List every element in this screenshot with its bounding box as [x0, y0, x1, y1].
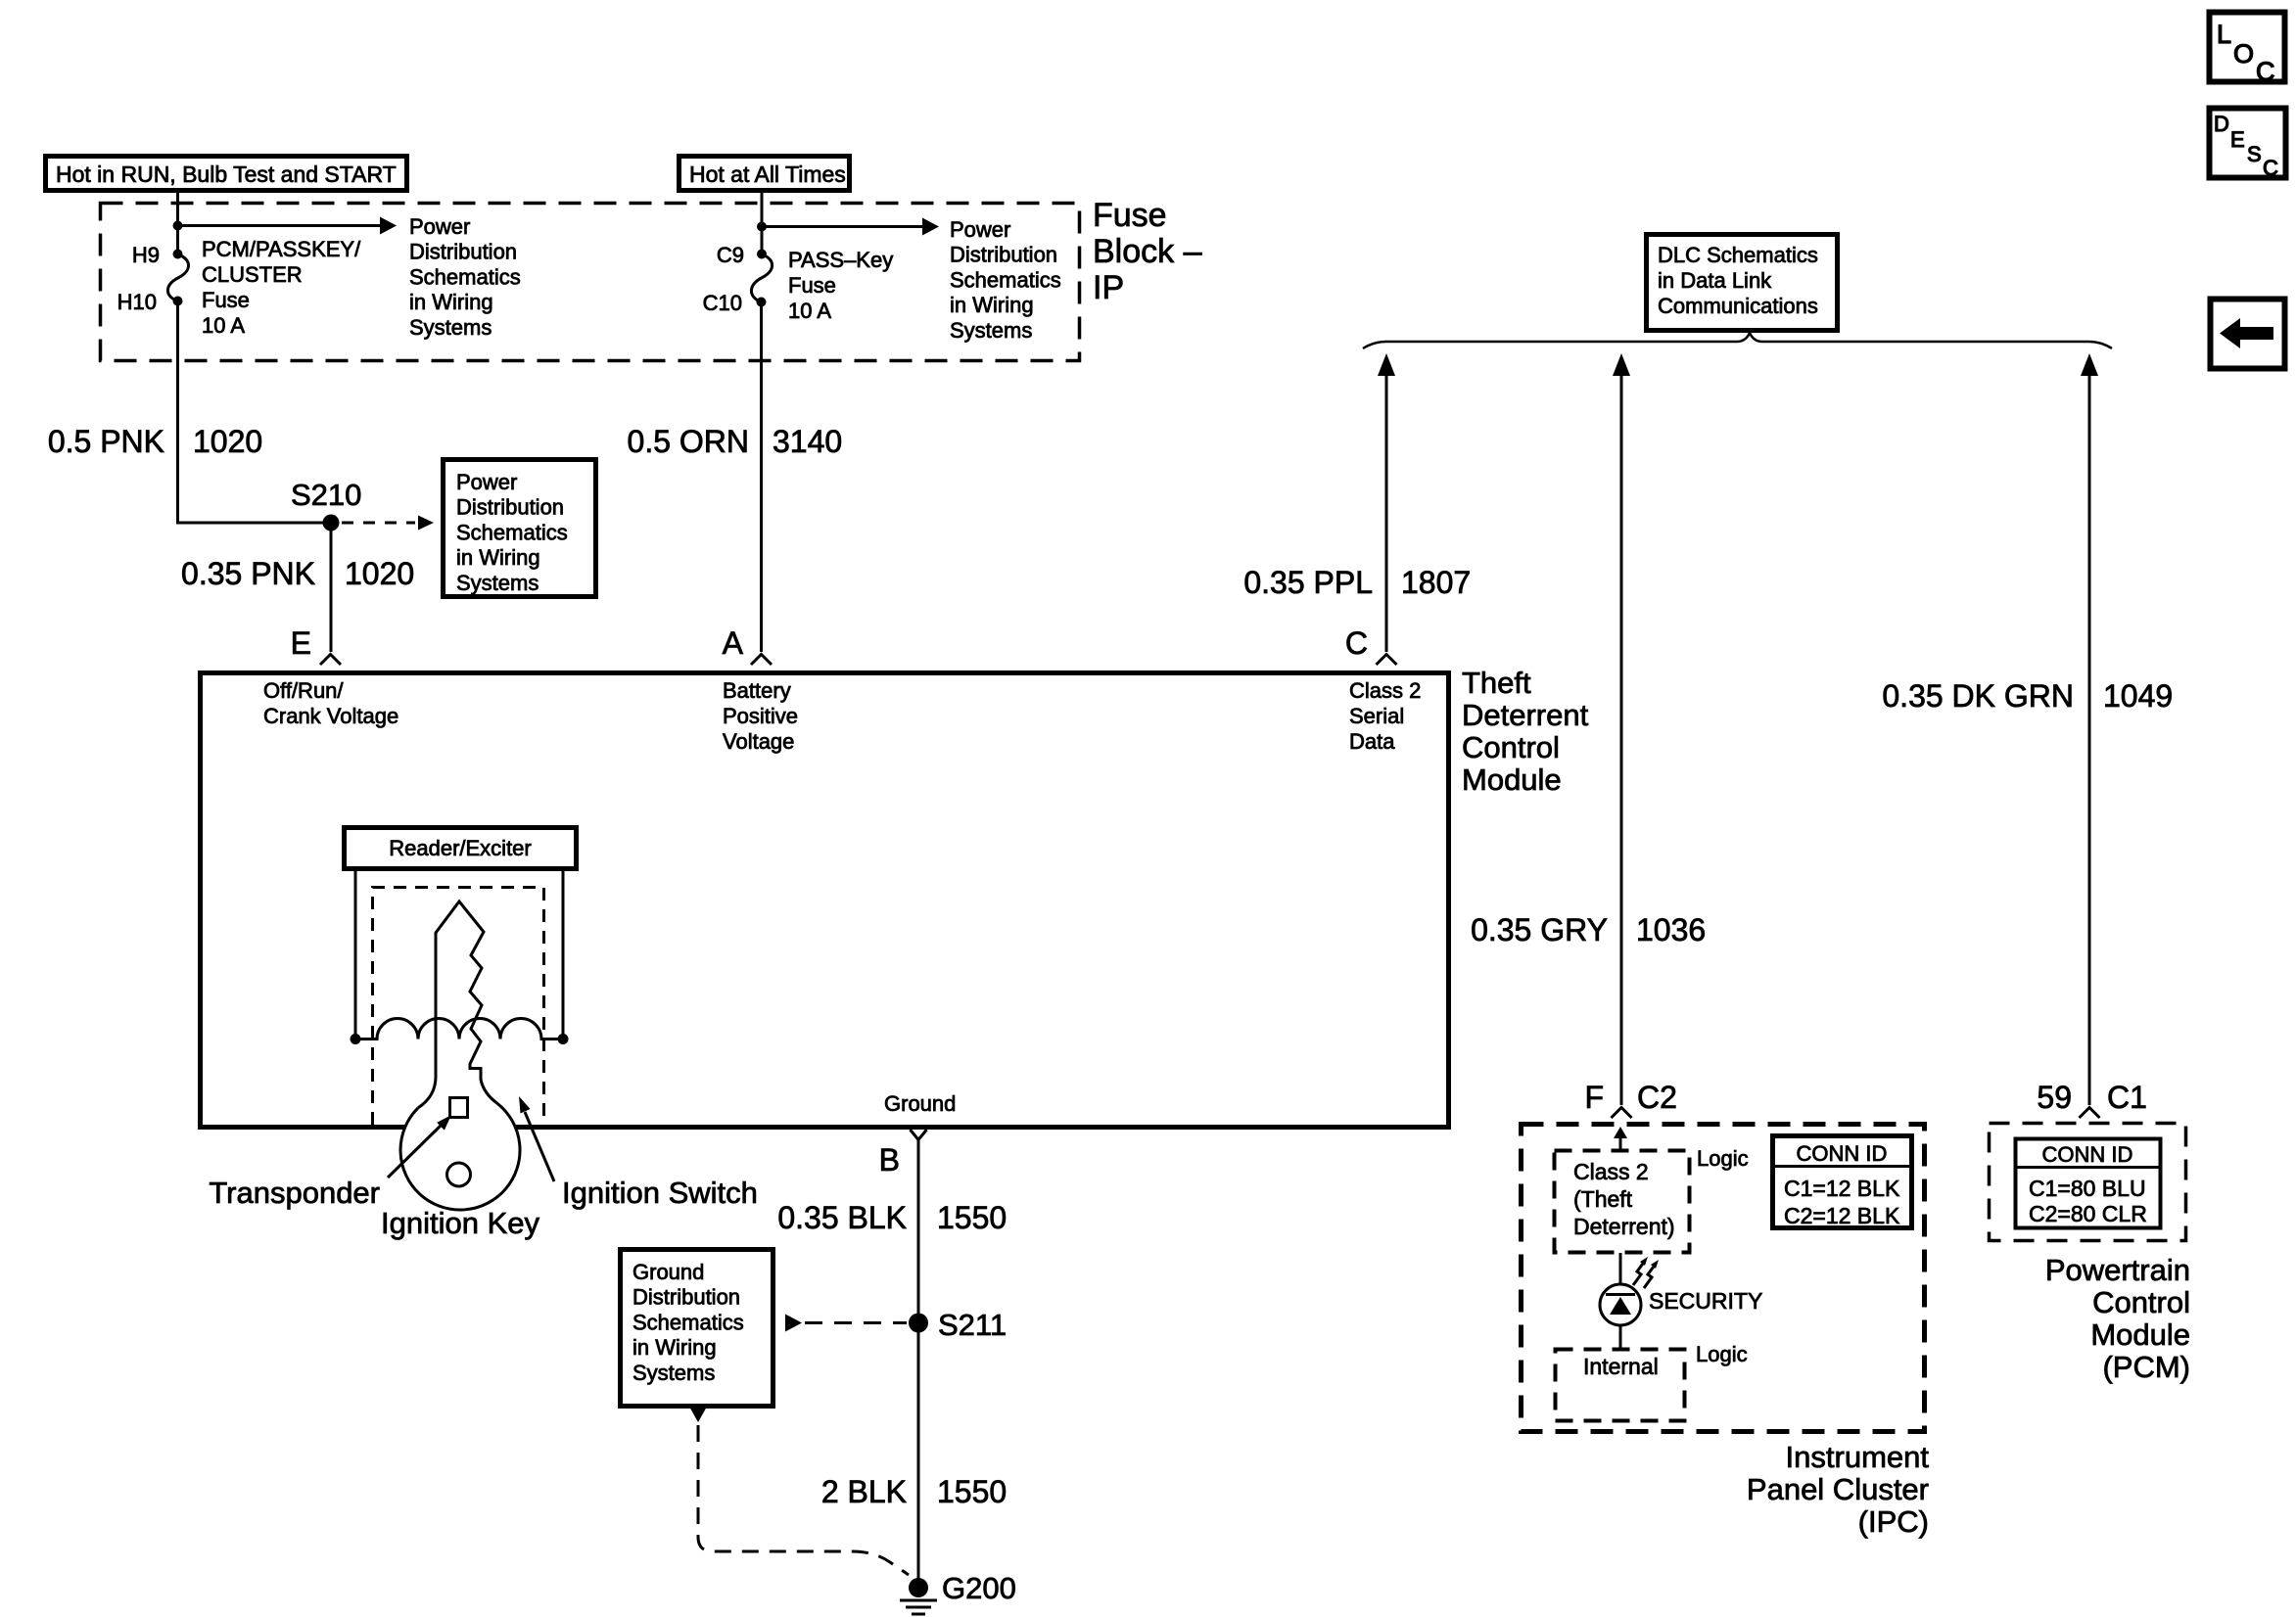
- svg-text:Ground: Ground: [633, 1260, 704, 1284]
- svg-text:C10: C10: [703, 291, 742, 315]
- svg-text:10 A: 10 A: [202, 313, 245, 338]
- ground G200: [900, 1578, 937, 1614]
- svg-text:CONN ID: CONN ID: [2042, 1142, 2133, 1167]
- wire 59 C1 (PCM class 2 serial data): [2088, 376, 2091, 1105]
- LOC icon box: [2210, 13, 2285, 87]
- lamp flash arrows: [1633, 1257, 1659, 1288]
- junction node on H fuse feed: [173, 221, 183, 231]
- svg-text:0.35 PPL: 0.35 PPL: [1243, 565, 1373, 600]
- svg-text:F: F: [1584, 1080, 1604, 1115]
- wire reader right leg: [562, 869, 565, 1035]
- powertrain control module dashed box: [1990, 1124, 2186, 1241]
- ignition key shaft and teeth: [418, 901, 497, 1108]
- svg-text:Distribution: Distribution: [633, 1285, 740, 1310]
- svg-text:S210: S210: [291, 478, 361, 512]
- svg-text:Power: Power: [950, 217, 1010, 242]
- svg-text:C9: C9: [717, 243, 744, 267]
- svg-text:1020: 1020: [345, 556, 414, 591]
- svg-text:C: C: [2256, 57, 2275, 86]
- svg-text:C1: C1: [2107, 1080, 2147, 1115]
- dashed arrow from S210 to power distribution box: [342, 516, 434, 531]
- conn id table PCM: [2015, 1139, 2161, 1228]
- svg-text:Transponder: Transponder: [209, 1176, 380, 1210]
- svg-text:PASS–Key: PASS–Key: [788, 248, 893, 272]
- wire H10 to S210 to E: [178, 301, 332, 653]
- svg-text:L: L: [2217, 20, 2231, 49]
- svg-text:Systems: Systems: [950, 318, 1032, 343]
- svg-text:1049: 1049: [2103, 678, 2173, 714]
- svg-text:Systems: Systems: [633, 1361, 715, 1385]
- internal up arrow: [1614, 1127, 1627, 1151]
- svg-text:Logic: Logic: [1696, 1342, 1748, 1366]
- svg-text:2 BLK: 2 BLK: [821, 1474, 907, 1509]
- instrument panel cluster dashed box: [1522, 1125, 1925, 1432]
- wire F C2 (IPC class 2 serial data): [1620, 376, 1623, 1105]
- svg-text:C2: C2: [1637, 1080, 1677, 1115]
- svg-text:Theft: Theft: [1462, 666, 1531, 700]
- label: Class 2 Serial Data: [1349, 678, 1421, 754]
- wire class2 to security lamp: [1619, 1253, 1622, 1284]
- key ring hole: [447, 1163, 471, 1186]
- label box: Hot in RUN, Bulb Test and START: [46, 157, 407, 191]
- svg-text:CONN ID: CONN ID: [1797, 1141, 1888, 1166]
- svg-text:Power: Power: [456, 470, 517, 494]
- svg-text:59: 59: [2037, 1080, 2072, 1115]
- label box: Hot at All Times: [679, 157, 850, 191]
- svg-text:(Theft: (Theft: [1573, 1186, 1633, 1212]
- svg-text:1550: 1550: [937, 1200, 1007, 1235]
- connector pin B: [911, 1130, 927, 1140]
- svg-text:Module: Module: [1462, 762, 1562, 797]
- svg-text:1807: 1807: [1401, 565, 1471, 600]
- svg-text:Data: Data: [1349, 729, 1395, 754]
- svg-text:Communications: Communications: [1658, 294, 1818, 318]
- fuse PASS-Key 10 A (C9-C10): [751, 250, 772, 307]
- svg-text:G200: G200: [942, 1571, 1016, 1605]
- label: Theft Deterrent Control Module: [1462, 666, 1589, 797]
- label: PASS-Key Fuse 10 A: [788, 248, 893, 323]
- svg-text:D: D: [2214, 112, 2229, 136]
- theft deterrent control module box: [201, 673, 1449, 1128]
- svg-text:Systems: Systems: [409, 315, 492, 340]
- dashed arrow from ground box to S211: [785, 1315, 907, 1332]
- label: Class 2 (Theft Deterrent): [1573, 1159, 1675, 1239]
- svg-text:in Wiring: in Wiring: [950, 293, 1034, 317]
- svg-text:in Wiring: in Wiring: [409, 290, 493, 314]
- svg-text:Off/Run/: Off/Run/: [263, 678, 344, 703]
- svg-text:H9: H9: [132, 243, 160, 267]
- svg-text:B: B: [879, 1142, 900, 1178]
- svg-text:Ignition Key: Ignition Key: [381, 1206, 539, 1240]
- svg-text:Distribution: Distribution: [456, 495, 564, 520]
- fuse PCM/PASSKEY/CLUSTER 10 A (H9-H10): [167, 250, 188, 306]
- svg-text:Module: Module: [2090, 1317, 2190, 1352]
- wire from Hot at All Times box to fuse C9: [761, 192, 764, 254]
- svg-text:C2=80 CLR: C2=80 CLR: [2029, 1201, 2147, 1226]
- svg-text:IP: IP: [1093, 269, 1124, 306]
- ignition switch pointer arrow: [519, 1096, 554, 1181]
- internal dashed box: [1556, 1350, 1685, 1421]
- svg-text:in Wiring: in Wiring: [456, 545, 540, 570]
- label: Battery Positive Voltage: [723, 678, 798, 754]
- svg-text:C2=12 BLK: C2=12 BLK: [1784, 1203, 1900, 1228]
- svg-text:in Wiring: in Wiring: [633, 1335, 717, 1360]
- conn id table IPC: [1772, 1136, 1912, 1229]
- svg-text:10 A: 10 A: [788, 299, 831, 323]
- dashed arrow below ground box to G200: [689, 1407, 909, 1575]
- connector pin A: [751, 655, 772, 666]
- svg-text:Systems: Systems: [456, 571, 539, 595]
- svg-text:Fuse: Fuse: [1093, 197, 1167, 234]
- svg-text:(IPC): (IPC): [1858, 1504, 1929, 1539]
- label: Off/Run/Crank Voltage: [263, 678, 398, 728]
- connector pin E: [320, 655, 341, 666]
- connector pin F C2: [1612, 1108, 1632, 1119]
- svg-text:Schematics: Schematics: [409, 264, 521, 289]
- svg-text:Internal: Internal: [1583, 1354, 1659, 1379]
- svg-text:Control: Control: [2092, 1285, 2190, 1319]
- back arrow icon box: [2211, 300, 2285, 369]
- svg-text:Powertrain: Powertrain: [2045, 1253, 2190, 1287]
- svg-text:Crank Voltage: Crank Voltage: [263, 704, 398, 728]
- label: Powertrain Control Module (PCM): [2045, 1253, 2190, 1384]
- svg-text:Logic: Logic: [1697, 1146, 1749, 1171]
- wire from Hot in RUN box to fuse H9: [176, 192, 179, 254]
- svg-text:Deterrent): Deterrent): [1573, 1214, 1675, 1239]
- svg-text:0.35 BLK: 0.35 BLK: [777, 1200, 907, 1235]
- svg-text:Class 2: Class 2: [1349, 678, 1421, 703]
- svg-text:E: E: [291, 625, 311, 661]
- ignition key dashed box: [373, 888, 544, 1126]
- svg-text:Block –: Block –: [1093, 233, 1202, 270]
- wire reader left leg: [354, 869, 357, 1035]
- svg-text:Deterrent: Deterrent: [1462, 698, 1589, 732]
- junction node on C fuse feed: [757, 222, 767, 232]
- svg-text:E: E: [2230, 127, 2245, 152]
- class 2 theft deterrent dashed box: [1555, 1151, 1690, 1253]
- connector pin C: [1377, 655, 1397, 666]
- svg-text:Hot at All Times: Hot at All Times: [689, 162, 846, 187]
- exciter coil: [360, 1019, 558, 1039]
- reader/exciter box: [345, 828, 577, 869]
- reference box: Ground Distribution Schematics in Wiring Systems: [621, 1250, 773, 1407]
- node left coil: [351, 1034, 361, 1044]
- svg-text:Fuse: Fuse: [202, 288, 250, 312]
- svg-text:Reader/Exciter: Reader/Exciter: [389, 836, 532, 860]
- svg-text:H10: H10: [117, 290, 157, 314]
- svg-text:Positive: Positive: [723, 704, 798, 728]
- splice S210: [323, 515, 340, 531]
- svg-text:Serial: Serial: [1349, 704, 1404, 728]
- wire security lamp to internal: [1619, 1325, 1622, 1349]
- splice S211: [909, 1314, 928, 1333]
- wire B to G200: [917, 1140, 920, 1586]
- svg-text:1036: 1036: [1636, 912, 1706, 947]
- svg-text:Schematics: Schematics: [950, 267, 1061, 292]
- transponder pointer arrow: [388, 1115, 451, 1178]
- svg-text:1550: 1550: [937, 1474, 1007, 1509]
- fuse block IP dashed box: [101, 204, 1080, 361]
- svg-text:Control: Control: [1462, 730, 1560, 764]
- label: Instrument Panel Cluster (IPC): [1747, 1440, 1929, 1539]
- svg-text:Panel Cluster: Panel Cluster: [1747, 1472, 1929, 1506]
- up arrowhead 59: [2081, 353, 2098, 376]
- svg-text:C: C: [2263, 156, 2278, 180]
- node right coil: [558, 1034, 569, 1044]
- svg-text:C: C: [1345, 625, 1368, 661]
- svg-text:A: A: [723, 625, 744, 661]
- up arrowhead F: [1613, 353, 1630, 376]
- wire C (class 2 serial data) up to DLC brace: [1385, 376, 1388, 652]
- reference box: Power Distribution Schematics in Wiring Systems: [444, 460, 596, 597]
- svg-text:Ignition Switch: Ignition Switch: [562, 1176, 758, 1210]
- svg-text:Schematics: Schematics: [456, 520, 568, 544]
- svg-text:S211: S211: [938, 1308, 1007, 1342]
- svg-text:SECURITY: SECURITY: [1649, 1288, 1762, 1314]
- svg-text:0.5 ORN: 0.5 ORN: [628, 424, 749, 459]
- note: Power Distribution Schematics in Wiring Systems (right): [950, 217, 1061, 343]
- svg-text:0.35 DK GRN: 0.35 DK GRN: [1882, 678, 2074, 714]
- wire arrow to power distribution note (left): [178, 217, 398, 235]
- brace for DLC schematics: [1363, 333, 2112, 348]
- svg-text:Distribution: Distribution: [950, 243, 1057, 267]
- svg-text:0.35 GRY: 0.35 GRY: [1471, 912, 1608, 947]
- svg-text:S: S: [2247, 142, 2262, 166]
- label: PCM/PASSKEY/CLUSTER Fuse 10 A: [202, 237, 361, 338]
- svg-text:O: O: [2233, 39, 2254, 69]
- svg-text:Distribution: Distribution: [409, 240, 517, 264]
- svg-text:Power: Power: [409, 214, 470, 239]
- wire arrow to power distribution note (right): [762, 218, 939, 236]
- svg-text:Instrument: Instrument: [1786, 1440, 1930, 1474]
- svg-text:PCM/PASSKEY/: PCM/PASSKEY/: [202, 237, 361, 261]
- svg-text:Hot in RUN, Bulb Test and STAR: Hot in RUN, Bulb Test and START: [56, 162, 397, 187]
- svg-text:Battery: Battery: [723, 678, 791, 703]
- svg-text:Class 2: Class 2: [1573, 1159, 1649, 1184]
- label: Fuse Block - IP: [1093, 197, 1202, 306]
- svg-text:Voltage: Voltage: [723, 729, 794, 754]
- svg-text:0.35 PNK: 0.35 PNK: [181, 556, 315, 591]
- svg-text:in Data Link: in Data Link: [1658, 268, 1772, 293]
- svg-text:CLUSTER: CLUSTER: [202, 262, 303, 287]
- svg-text:Schematics: Schematics: [633, 1310, 744, 1334]
- up arrowhead C: [1378, 353, 1395, 376]
- svg-text:C1=12 BLK: C1=12 BLK: [1784, 1176, 1900, 1201]
- note: Power Distribution Schematics in Wiring Systems (left): [409, 214, 521, 340]
- svg-text:1020: 1020: [193, 424, 262, 459]
- transponder square on key: [450, 1098, 468, 1118]
- svg-text:3140: 3140: [773, 424, 842, 459]
- svg-text:Ground: Ground: [884, 1091, 956, 1116]
- ignition key head: [400, 1103, 520, 1210]
- wire C10 to A: [760, 302, 763, 653]
- svg-text:0.5 PNK: 0.5 PNK: [48, 424, 164, 459]
- security indicator lamp: [1600, 1284, 1641, 1325]
- reference box: DLC Schematics in Data Link Communications: [1647, 235, 1838, 331]
- svg-text:(PCM): (PCM): [2102, 1350, 2190, 1384]
- DESC icon box: [2210, 109, 2286, 181]
- svg-text:DLC Schematics: DLC Schematics: [1658, 243, 1818, 267]
- svg-text:C1=80 BLU: C1=80 BLU: [2029, 1176, 2146, 1201]
- svg-text:Fuse: Fuse: [788, 273, 836, 298]
- connector pin 59 C1: [2080, 1108, 2100, 1119]
